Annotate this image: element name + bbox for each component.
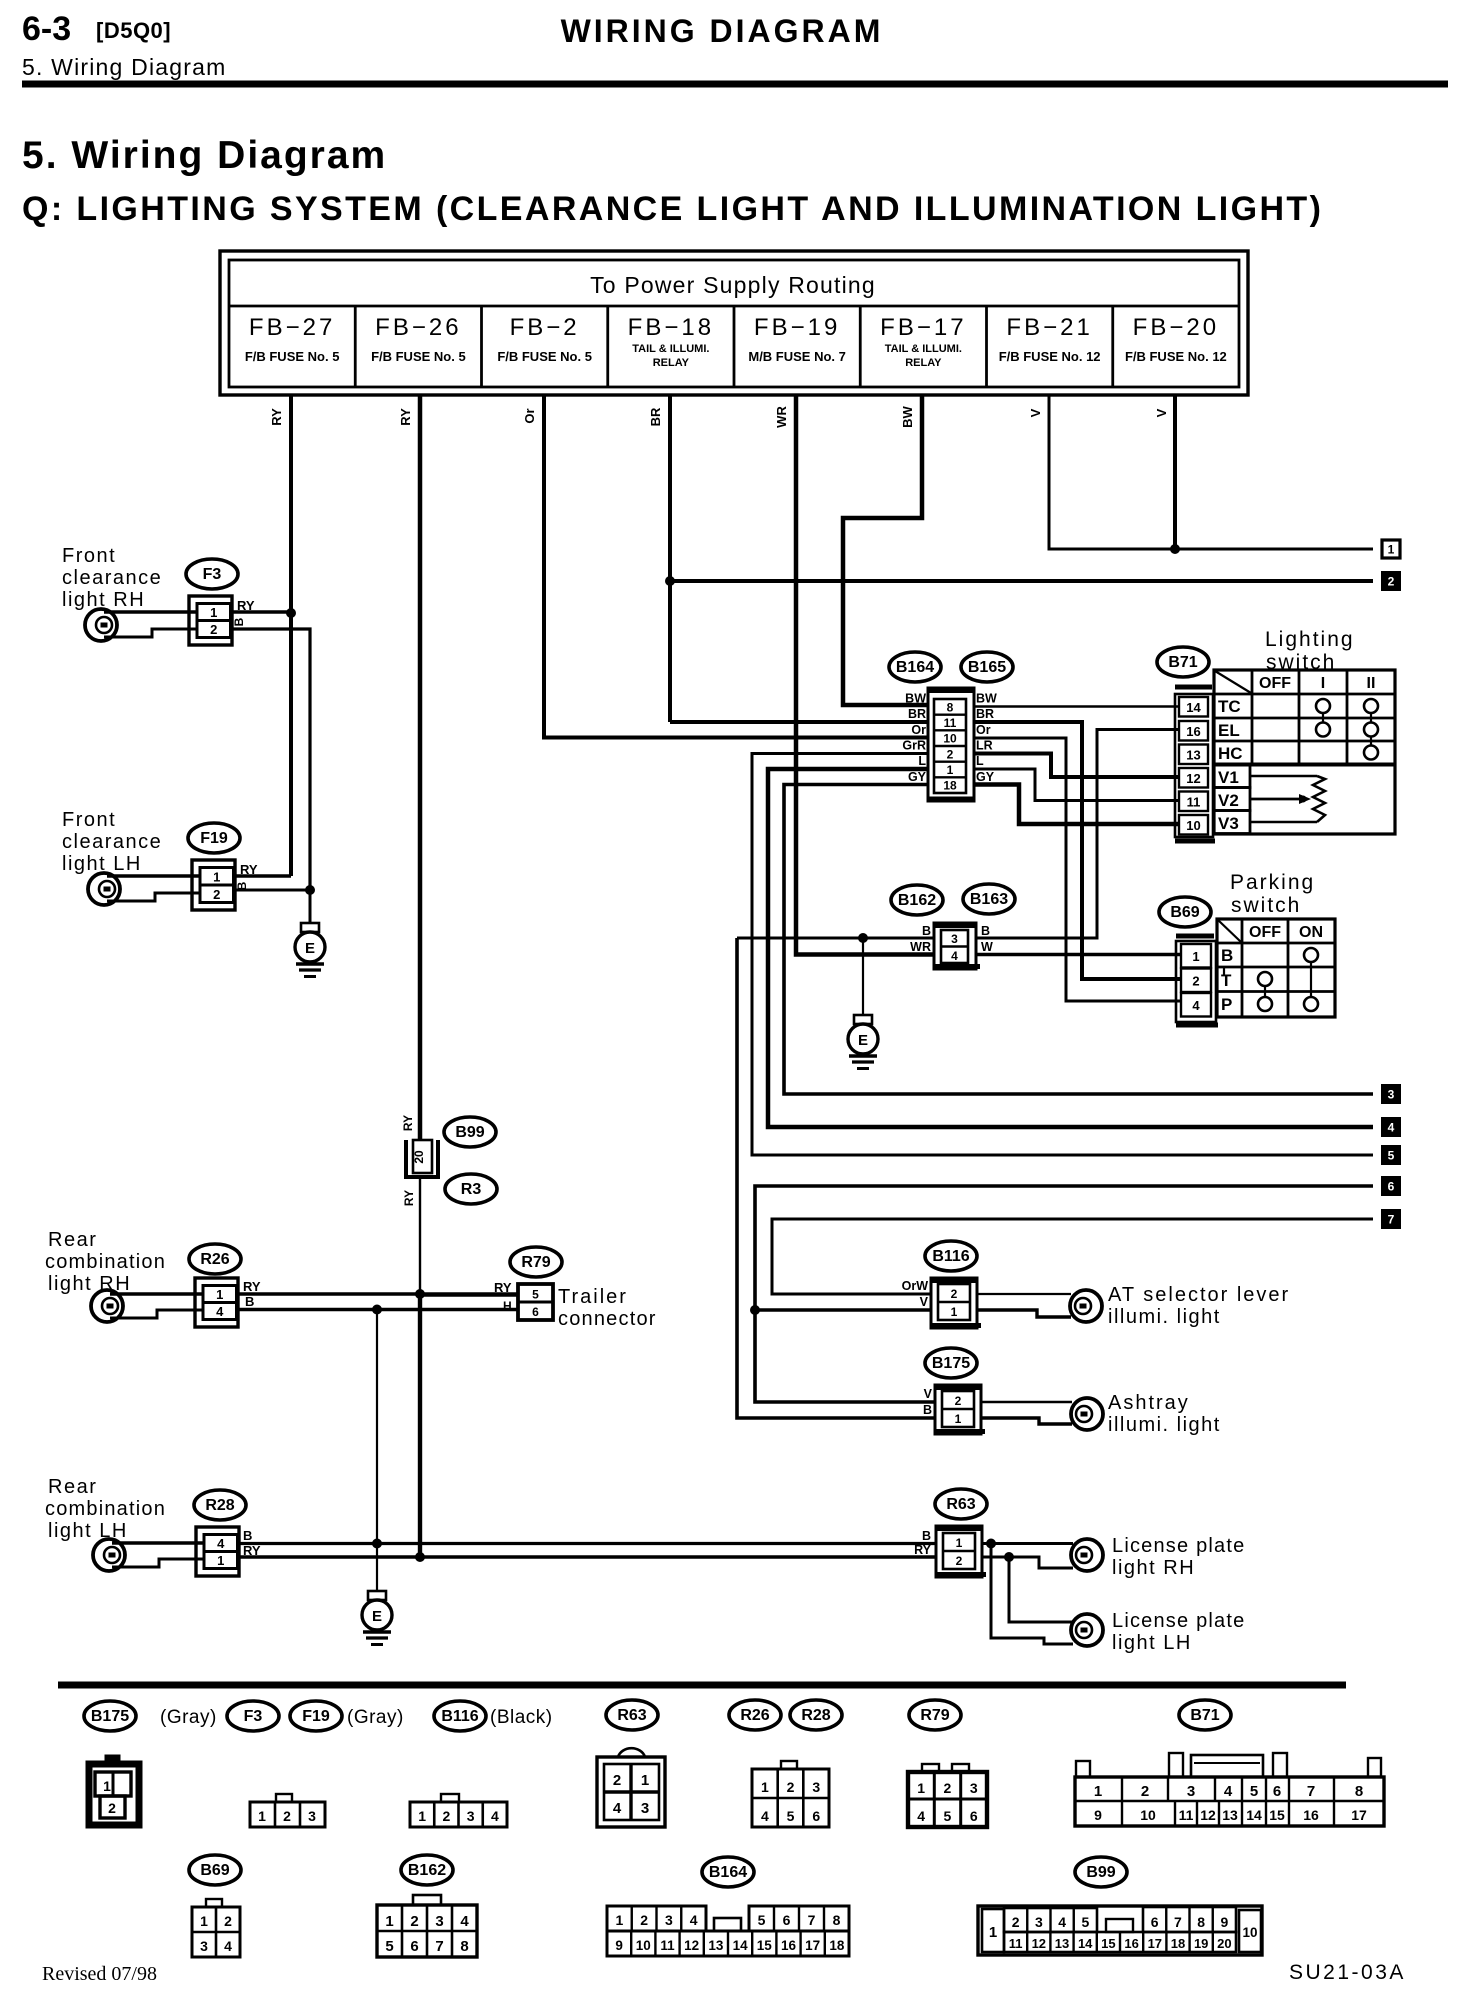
svg-text:illumi. light: illumi. light bbox=[1108, 1414, 1221, 1436]
svg-text:RY: RY bbox=[494, 1280, 512, 1295]
svg-text:12: 12 bbox=[1186, 771, 1200, 786]
svg-text:6: 6 bbox=[812, 1808, 820, 1824]
wire R63 pin 2 run bbox=[982, 1557, 1073, 1568]
svg-text:1: 1 bbox=[955, 1412, 962, 1426]
label Rear combination light RH bbox=[45, 1229, 166, 1295]
svg-text:1: 1 bbox=[989, 1924, 997, 1941]
svg-text:5. Wiring Diagram: 5. Wiring Diagram bbox=[22, 134, 387, 177]
svg-text:(Gray): (Gray) bbox=[160, 1707, 217, 1728]
wire F19 bulb to pin 2 bbox=[107, 893, 201, 901]
svg-text:4: 4 bbox=[951, 949, 958, 963]
svg-text:5: 5 bbox=[1250, 1783, 1258, 1800]
svg-text:B: B bbox=[243, 1528, 252, 1543]
wire B drop to R28 bbox=[376, 1310, 378, 1544]
pin 12 of B71 bbox=[1179, 768, 1208, 788]
svg-text:T: T bbox=[1221, 971, 1232, 990]
connector R79 bbox=[518, 1284, 553, 1320]
svg-text:7: 7 bbox=[1307, 1783, 1315, 1800]
svg-text:5: 5 bbox=[1081, 1914, 1089, 1930]
legend connector B164 bbox=[607, 1906, 849, 1956]
svg-text:4: 4 bbox=[1192, 998, 1200, 1013]
junction F19 B ground bbox=[305, 885, 315, 895]
svg-text:F19: F19 bbox=[200, 830, 228, 847]
pin 10 of B71 bbox=[1179, 815, 1208, 835]
bulb front clearance RH bbox=[85, 609, 117, 641]
svg-text:2: 2 bbox=[951, 1287, 958, 1301]
svg-text:13: 13 bbox=[1186, 748, 1200, 763]
svg-text:2: 2 bbox=[947, 747, 954, 761]
svg-text:F/B FUSE No. 5: F/B FUSE No. 5 bbox=[245, 349, 340, 364]
wire R26 bulb to pin 4 bbox=[110, 1310, 204, 1318]
lighting switch cell V1 bbox=[1214, 765, 1250, 788]
svg-text:V3: V3 bbox=[1218, 814, 1239, 833]
svg-text:RY: RY bbox=[402, 1190, 416, 1206]
svg-text:LR: LR bbox=[976, 739, 993, 753]
wire B116 pin 1 to bulb bbox=[977, 1310, 1071, 1317]
svg-text:1: 1 bbox=[956, 1536, 963, 1550]
fuse cell FB-26 bbox=[371, 314, 466, 364]
svg-text:BR: BR bbox=[648, 407, 663, 426]
legend oval B175 bbox=[84, 1701, 136, 1731]
wire RY from FB-26 bbox=[418, 395, 423, 1141]
contact circle TC-II bbox=[1364, 699, 1378, 713]
svg-text:BW: BW bbox=[976, 692, 997, 706]
svg-text:1: 1 bbox=[951, 1305, 958, 1319]
wire L B164 to terminal 4 bbox=[768, 769, 1373, 1127]
connector oval B71 bbox=[1157, 647, 1209, 677]
junction RY feed end at R28 wire bbox=[415, 1552, 425, 1562]
junction R28 B ground bbox=[372, 1539, 382, 1549]
svg-text:R3: R3 bbox=[461, 1181, 482, 1198]
svg-text:B163: B163 bbox=[970, 891, 1008, 908]
svg-text:B: B bbox=[981, 924, 990, 938]
svg-text:2: 2 bbox=[442, 1808, 450, 1824]
svg-text:Rear: Rear bbox=[48, 1476, 97, 1498]
svg-text:WR: WR bbox=[774, 406, 789, 428]
connector oval B175 bbox=[925, 1348, 977, 1378]
svg-text:7: 7 bbox=[808, 1912, 816, 1928]
connector oval B164 bbox=[889, 652, 941, 682]
svg-text:FB−27: FB−27 bbox=[249, 314, 335, 341]
svg-text:RY: RY bbox=[914, 1543, 932, 1557]
wire R63 pin 1 to license RH bulb bbox=[982, 1542, 1073, 1545]
legend oval R63 bbox=[606, 1700, 658, 1730]
svg-text:1: 1 bbox=[210, 605, 217, 620]
wire R26 bulb to pin 1 bbox=[110, 1292, 204, 1296]
label Ashtray illumi light bbox=[1108, 1392, 1221, 1436]
svg-text:10: 10 bbox=[943, 732, 957, 746]
svg-text:switch: switch bbox=[1231, 894, 1301, 917]
svg-text:10: 10 bbox=[1242, 1925, 1257, 1940]
svg-text:License plate: License plate bbox=[1112, 1535, 1245, 1557]
svg-text:Lighting: Lighting bbox=[1265, 628, 1355, 651]
connector R28 bbox=[196, 1527, 239, 1576]
junction license RY bbox=[1004, 1552, 1014, 1562]
label License plate light LH bbox=[1112, 1610, 1245, 1654]
svg-text:OFF: OFF bbox=[1259, 675, 1291, 692]
label Rear combination light LH bbox=[45, 1476, 166, 1542]
pin 16 of B71 bbox=[1179, 721, 1208, 741]
ground E B162 bbox=[848, 1015, 878, 1069]
svg-text:RELAY: RELAY bbox=[905, 357, 942, 369]
svg-text:2: 2 bbox=[640, 1912, 648, 1928]
wire BR B165 to parking switch pin 2 bbox=[974, 722, 1181, 979]
wire RY junction to R79 pin 5 bbox=[420, 1292, 518, 1296]
svg-text:TAIL & ILLUMI.: TAIL & ILLUMI. bbox=[632, 343, 709, 355]
svg-text:Trailer: Trailer bbox=[558, 1286, 628, 1308]
svg-text:1: 1 bbox=[258, 1808, 266, 1824]
svg-text:3: 3 bbox=[308, 1808, 316, 1824]
svg-text:11: 11 bbox=[1179, 1807, 1194, 1823]
svg-text:7: 7 bbox=[1174, 1914, 1182, 1930]
label Lighting switch bbox=[1265, 628, 1355, 674]
legend connector B69 bbox=[192, 1899, 240, 1957]
svg-text:TAIL & ILLUMI.: TAIL & ILLUMI. bbox=[885, 343, 962, 355]
wire BW from FB-17 bbox=[843, 395, 929, 705]
connector oval B163 bbox=[963, 884, 1015, 914]
bulb rear combination LH bbox=[93, 1539, 125, 1571]
svg-text:3: 3 bbox=[951, 932, 958, 946]
svg-text:5: 5 bbox=[1388, 1149, 1395, 1163]
svg-text:7: 7 bbox=[1388, 1213, 1395, 1227]
svg-text:TC: TC bbox=[1218, 697, 1241, 716]
bulb license plate LH bbox=[1071, 1614, 1103, 1646]
svg-text:5: 5 bbox=[532, 1288, 539, 1302]
svg-text:3: 3 bbox=[970, 1780, 978, 1796]
wire R26 pin 4 to trailer connector bbox=[237, 1308, 518, 1311]
fuse cell FB-19 bbox=[748, 314, 846, 364]
svg-text:B164: B164 bbox=[896, 659, 934, 676]
svg-text:3: 3 bbox=[812, 1779, 820, 1795]
svg-text:B71: B71 bbox=[1168, 654, 1197, 671]
svg-text:3: 3 bbox=[641, 1800, 649, 1817]
svg-text:combination: combination bbox=[45, 1498, 166, 1520]
contact link I column bbox=[1322, 713, 1324, 723]
V1 wire to resistor top bbox=[1250, 775, 1317, 777]
svg-text:17: 17 bbox=[1148, 1936, 1162, 1951]
legend connector R63 bbox=[597, 1748, 665, 1827]
wire Or B165 to parking switch pin 4 bbox=[974, 738, 1181, 1001]
parking contact circle B-ON bbox=[1304, 948, 1318, 962]
fuse cell FB-20 bbox=[1125, 314, 1227, 364]
svg-text:L: L bbox=[976, 754, 984, 768]
wire R26 pin 1 to trailer connector bbox=[237, 1292, 420, 1296]
svg-text:To Power Supply Routing: To Power Supply Routing bbox=[590, 272, 876, 298]
svg-text:1: 1 bbox=[615, 1912, 623, 1928]
svg-text:2: 2 bbox=[955, 1394, 962, 1408]
svg-text:3: 3 bbox=[1187, 1783, 1195, 1800]
pin 13 of B71 bbox=[1179, 745, 1208, 765]
svg-text:3: 3 bbox=[467, 1808, 475, 1824]
svg-text:2: 2 bbox=[1012, 1914, 1020, 1930]
parking contact circle P-ON bbox=[1304, 997, 1318, 1011]
wire RY below B99 bbox=[419, 1179, 421, 1294]
svg-text:9: 9 bbox=[1094, 1807, 1102, 1823]
legend oval B71 bbox=[1179, 1700, 1231, 1730]
legend connector B71 bbox=[1075, 1753, 1384, 1826]
svg-text:2: 2 bbox=[787, 1779, 795, 1795]
junction V at B116 bbox=[750, 1305, 760, 1315]
lighting switch cell V2 bbox=[1214, 788, 1250, 811]
terminal 1 bbox=[1382, 540, 1400, 558]
svg-text:E: E bbox=[858, 1032, 868, 1049]
legend separator rule bbox=[58, 1682, 1346, 1689]
contact circle TC-I bbox=[1316, 699, 1330, 713]
svg-text:Or: Or bbox=[522, 408, 537, 423]
connector oval B165 bbox=[961, 652, 1013, 682]
svg-text:E: E bbox=[372, 1608, 382, 1625]
svg-text:15: 15 bbox=[1101, 1936, 1115, 1951]
header rule bbox=[22, 81, 1448, 88]
wire B down to B175 bbox=[737, 938, 936, 1418]
svg-text:II: II bbox=[1367, 675, 1376, 692]
svg-text:3: 3 bbox=[435, 1913, 443, 1930]
junction R26 RY with feed bbox=[415, 1289, 425, 1299]
legend connector R79 bbox=[908, 1764, 987, 1827]
bulb rear combination RH bbox=[91, 1290, 123, 1322]
svg-text:BW: BW bbox=[905, 692, 926, 706]
lighting switch cell V3 bbox=[1214, 811, 1250, 834]
legend connector B116 bbox=[410, 1794, 507, 1827]
junction F3 RY bbox=[286, 608, 296, 618]
svg-text:18: 18 bbox=[943, 779, 957, 793]
connector B175 bbox=[935, 1385, 985, 1434]
parking contact tick under B bbox=[1223, 966, 1225, 976]
svg-text:F19: F19 bbox=[302, 1708, 330, 1725]
connector B164/B165 body bbox=[928, 688, 974, 801]
svg-text:2: 2 bbox=[1192, 974, 1199, 989]
svg-text:R28: R28 bbox=[801, 1707, 830, 1724]
pin 1 of B69 bbox=[1181, 944, 1211, 968]
svg-text:4: 4 bbox=[491, 1808, 499, 1824]
svg-text:RY: RY bbox=[401, 1115, 415, 1131]
wire R28 bulb to pin 4 bbox=[112, 1541, 205, 1545]
svg-text:17: 17 bbox=[1351, 1807, 1367, 1823]
svg-text:1: 1 bbox=[641, 1772, 649, 1789]
fuse cell FB-27 bbox=[245, 314, 340, 364]
svg-text:8: 8 bbox=[1197, 1914, 1205, 1930]
legend oval B116 bbox=[434, 1701, 486, 1731]
bulb AT selector illumi bbox=[1070, 1290, 1102, 1322]
pin 2 of B69 bbox=[1181, 969, 1211, 993]
svg-text:16: 16 bbox=[1124, 1936, 1138, 1951]
svg-text:3: 3 bbox=[1388, 1088, 1395, 1102]
svg-text:GY: GY bbox=[976, 770, 995, 784]
wire BR from FB-18 bbox=[668, 395, 672, 722]
fuse cell FB-2 bbox=[497, 314, 592, 364]
parking contact circle T-OFF bbox=[1258, 972, 1272, 986]
svg-text:6: 6 bbox=[1388, 1180, 1395, 1194]
contact link II column EL-HC bbox=[1370, 737, 1372, 747]
connector B116 bbox=[931, 1278, 981, 1328]
svg-text:4: 4 bbox=[761, 1808, 769, 1824]
svg-text:B99: B99 bbox=[1086, 1864, 1115, 1881]
wire GY B165 to lighting switch pin 10 bbox=[974, 785, 1180, 825]
svg-text:2: 2 bbox=[1141, 1783, 1149, 1800]
connector B69 pin column bbox=[1176, 936, 1216, 1022]
connector oval F19 bbox=[188, 823, 240, 853]
wire F3 bulb to pin 1 bbox=[104, 610, 198, 614]
svg-text:2: 2 bbox=[108, 1800, 116, 1816]
svg-text:FB−20: FB−20 bbox=[1133, 314, 1219, 341]
svg-text:16: 16 bbox=[1186, 724, 1200, 739]
svg-text:1: 1 bbox=[917, 1780, 925, 1796]
svg-text:R63: R63 bbox=[617, 1707, 646, 1724]
svg-text:1: 1 bbox=[947, 763, 954, 777]
svg-text:15: 15 bbox=[757, 1938, 773, 1953]
wire B into B162 pin 3 bbox=[737, 937, 934, 940]
wire V from FB-21 bbox=[1049, 395, 1373, 549]
svg-text:FB−2: FB−2 bbox=[510, 314, 580, 341]
svg-text:4: 4 bbox=[690, 1912, 698, 1928]
svg-text:4: 4 bbox=[1388, 1121, 1395, 1135]
svg-text:5: 5 bbox=[944, 1808, 952, 1824]
svg-text:RY: RY bbox=[398, 408, 413, 426]
svg-text:14: 14 bbox=[733, 1938, 749, 1953]
svg-text:B: B bbox=[922, 1529, 931, 1543]
connector R63 bbox=[936, 1526, 986, 1577]
connector F19 bbox=[192, 860, 235, 910]
svg-text:12: 12 bbox=[1200, 1807, 1216, 1823]
svg-text:B69: B69 bbox=[1170, 904, 1199, 921]
svg-text:13: 13 bbox=[708, 1938, 724, 1953]
svg-text:License plate: License plate bbox=[1112, 1610, 1245, 1632]
label Front clearance light LH bbox=[62, 809, 162, 875]
wire WR from FB-19 bbox=[796, 395, 935, 955]
fuse cell FB-21 bbox=[999, 314, 1101, 364]
svg-text:8: 8 bbox=[460, 1938, 468, 1955]
legend connector B175 bbox=[89, 1756, 139, 1825]
junction V wires bbox=[1170, 544, 1180, 554]
svg-text:6-3: 6-3 bbox=[22, 10, 71, 48]
svg-text:18: 18 bbox=[1171, 1936, 1185, 1951]
wire R28 bulb to pin 1 bbox=[112, 1559, 205, 1567]
wire RY junction to R28 bbox=[418, 1294, 422, 1557]
svg-text:16: 16 bbox=[781, 1938, 797, 1953]
svg-text:4: 4 bbox=[917, 1808, 925, 1824]
wire LR B165 to lighting switch pin 12 bbox=[974, 754, 1180, 778]
label License plate light RH bbox=[1112, 1535, 1245, 1579]
fuse cell FB-18 bbox=[628, 314, 714, 369]
wire RY from FB-27 bbox=[289, 395, 293, 876]
legend connector B99 bbox=[978, 1906, 1262, 1955]
svg-text:B71: B71 bbox=[1190, 1707, 1219, 1724]
svg-text:GrR: GrR bbox=[902, 739, 926, 753]
connector oval R26 bbox=[189, 1244, 241, 1274]
V2 wiper wire with arrow bbox=[1250, 794, 1311, 804]
power supply routing box bbox=[220, 251, 1248, 395]
svg-text:2: 2 bbox=[944, 1780, 952, 1796]
wire V from FB-20 bbox=[1173, 395, 1177, 549]
connector B69 lower bracket bbox=[1176, 1023, 1218, 1028]
contact circle HC-II bbox=[1364, 746, 1378, 760]
svg-text:12: 12 bbox=[1032, 1936, 1046, 1951]
resistor zigzag in lighting switch bbox=[1313, 776, 1325, 822]
svg-text:SU21-03A: SU21-03A bbox=[1289, 1961, 1406, 1984]
svg-text:R79: R79 bbox=[521, 1254, 550, 1271]
wire F19 pin 2 to ground bbox=[234, 889, 310, 892]
svg-text:1: 1 bbox=[1094, 1783, 1102, 1800]
wire V into B116 pin 1 bbox=[755, 1308, 931, 1312]
svg-text:RY: RY bbox=[269, 408, 284, 426]
wire B116 pin 2 to bulb bbox=[977, 1293, 1071, 1295]
terminal 5 bbox=[1382, 1146, 1400, 1164]
svg-text:B: B bbox=[923, 1403, 932, 1417]
bulb front clearance LH bbox=[88, 873, 120, 905]
svg-text:OrW: OrW bbox=[902, 1279, 929, 1293]
svg-text:R26: R26 bbox=[200, 1251, 229, 1268]
svg-text:V: V bbox=[1028, 408, 1043, 417]
svg-text:20: 20 bbox=[412, 1150, 426, 1164]
contact link II column TC-EL bbox=[1370, 713, 1372, 723]
svg-text:F/B FUSE No. 5: F/B FUSE No. 5 bbox=[497, 349, 592, 364]
wire BR branch to terminal 2 bbox=[670, 579, 1373, 583]
svg-text:L: L bbox=[918, 754, 926, 768]
svg-text:5. Wiring Diagram: 5. Wiring Diagram bbox=[22, 54, 226, 80]
svg-text:6: 6 bbox=[970, 1808, 978, 1824]
wire terminal 6 to B116 pin 1 and B175 pin 2 bbox=[755, 1186, 1373, 1402]
wire F3 pin 1 to RY feed bbox=[231, 610, 291, 613]
legend oval R26 bbox=[729, 1700, 781, 1730]
svg-text:10: 10 bbox=[636, 1938, 651, 1953]
svg-text:2: 2 bbox=[410, 1913, 418, 1930]
svg-text:3: 3 bbox=[1035, 1914, 1043, 1930]
legend connector R26/R28 bbox=[752, 1761, 829, 1827]
connector B71 pin column bbox=[1175, 687, 1213, 837]
terminal 2 bbox=[1382, 572, 1400, 590]
wire BR to B164 pin 11 bbox=[670, 720, 929, 724]
svg-text:6: 6 bbox=[783, 1912, 791, 1928]
svg-text:V: V bbox=[920, 1295, 929, 1309]
svg-text:6: 6 bbox=[532, 1305, 539, 1319]
svg-text:16: 16 bbox=[1303, 1807, 1319, 1823]
ground E rear bbox=[362, 1591, 392, 1645]
svg-text:1: 1 bbox=[103, 1778, 111, 1794]
svg-text:8: 8 bbox=[947, 700, 954, 714]
terminal 6 bbox=[1382, 1177, 1400, 1195]
connector oval R63 bbox=[935, 1489, 987, 1519]
svg-text:GY: GY bbox=[908, 770, 927, 784]
wire terminal 7 to B116 pin 2 bbox=[772, 1219, 1373, 1294]
svg-text:combination: combination bbox=[45, 1251, 166, 1273]
svg-text:1: 1 bbox=[761, 1779, 769, 1795]
svg-text:15: 15 bbox=[1269, 1807, 1285, 1823]
svg-text:F3: F3 bbox=[244, 1708, 263, 1725]
svg-text:R28: R28 bbox=[205, 1497, 234, 1514]
connector B71 lower bracket bbox=[1175, 839, 1215, 844]
svg-text:Or: Or bbox=[911, 723, 926, 737]
wire GrR B164 to terminal 5 bbox=[752, 754, 1373, 1156]
legend oval B164 bbox=[702, 1857, 754, 1887]
svg-text:8: 8 bbox=[833, 1912, 841, 1928]
wire F19 pin 1 to RY feed bbox=[234, 874, 291, 877]
connector oval B162 bbox=[891, 885, 943, 915]
svg-text:Front: Front bbox=[62, 545, 116, 567]
svg-text:19: 19 bbox=[1194, 1936, 1208, 1951]
svg-text:B175: B175 bbox=[91, 1708, 129, 1725]
lighting switch table bbox=[1214, 670, 1395, 834]
svg-text:8: 8 bbox=[1355, 1783, 1363, 1800]
wire license LH bottom bbox=[991, 1544, 1073, 1645]
label Parking switch bbox=[1230, 871, 1315, 917]
pin 4 of B69 bbox=[1181, 993, 1211, 1017]
label Trailer connector bbox=[558, 1286, 657, 1330]
svg-text:1: 1 bbox=[418, 1808, 426, 1824]
svg-text:6: 6 bbox=[1273, 1783, 1281, 1800]
svg-text:Rear: Rear bbox=[48, 1229, 97, 1251]
svg-text:B162: B162 bbox=[898, 892, 936, 909]
pin 11 of B71 bbox=[1179, 792, 1208, 812]
